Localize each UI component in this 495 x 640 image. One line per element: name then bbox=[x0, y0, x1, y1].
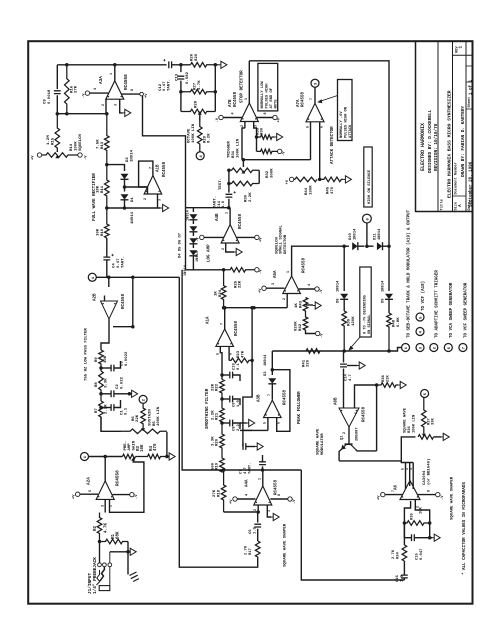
svg-text:4.7: 4.7 bbox=[349, 373, 353, 381]
svg-text:22K: 22K bbox=[386, 374, 390, 382]
offpage arrow cap stage bbox=[255, 446, 257, 448]
svg-text:Sheet: Sheet bbox=[467, 97, 472, 108]
svg-text:1N914: 1N914 bbox=[353, 228, 357, 240]
resistor R33 330 bbox=[257, 135, 275, 140]
wire A4A output up bbox=[262, 470, 264, 486]
svg-text:C11: C11 bbox=[218, 200, 222, 208]
wire CA3094 output pin down bbox=[404, 501, 410, 523]
resistor R30 2.2K to -V bbox=[257, 149, 278, 154]
capacitor C11 1.0 TANT bbox=[228, 184, 230, 193]
svg-text:8: 8 bbox=[264, 112, 268, 114]
svg-text:-V: -V bbox=[216, 117, 220, 122]
svg-text:A7B: A7B bbox=[229, 99, 233, 107]
svg-text:8: 8 bbox=[131, 89, 135, 91]
svg-text:2: 2 bbox=[241, 125, 245, 127]
svg-text:DETECTOR: DETECTOR bbox=[284, 234, 288, 254]
svg-text:R30: R30 bbox=[245, 194, 249, 202]
wire trigger rail bbox=[242, 159, 311, 161]
svg-text:100K LIN: 100K LIN bbox=[412, 414, 416, 433]
capacitor C13 0.082 bbox=[178, 76, 185, 79]
A7B power left circle bbox=[219, 115, 223, 119]
svg-text:RC4558: RC4558 bbox=[234, 91, 238, 107]
wire full wave bottom rail bbox=[107, 207, 161, 209]
svg-text:-V: -V bbox=[283, 151, 287, 156]
A4A power left bbox=[233, 497, 237, 501]
A2A power pin left bbox=[76, 492, 80, 496]
svg-text:7: 7 bbox=[268, 394, 272, 396]
svg-text:2: 2 bbox=[144, 198, 148, 200]
svg-text:SQUARE WAVE SHAPER: SQUARE WAVE SHAPER bbox=[450, 476, 454, 520]
svg-text:1.0: 1.0 bbox=[237, 399, 241, 407]
svg-text:1.0: 1.0 bbox=[222, 200, 226, 208]
svg-text:RC4558: RC4558 bbox=[275, 479, 279, 495]
svg-text:RC4558: RC4558 bbox=[239, 213, 243, 229]
svg-text:R9: R9 bbox=[95, 357, 99, 362]
node R44/R45 bbox=[318, 178, 322, 182]
svg-text:C2: C2 bbox=[116, 384, 120, 389]
svg-text:4.7K: 4.7K bbox=[198, 80, 202, 90]
svg-text:-V: -V bbox=[85, 155, 89, 160]
svg-text:C9: C9 bbox=[233, 402, 237, 407]
svg-text:NOTE: NOTE bbox=[274, 99, 278, 109]
wire R23 to right rail bbox=[250, 359, 254, 363]
svg-text:1N914: 1N914 bbox=[378, 228, 382, 240]
svg-text:R15: R15 bbox=[51, 137, 55, 145]
svg-text:0.0018: 0.0018 bbox=[48, 89, 52, 104]
svg-text:6: 6 bbox=[278, 422, 282, 424]
resistor R48 6.8K bbox=[387, 313, 392, 351]
wire inverting rail bbox=[57, 113, 106, 115]
svg-text:2N5087: 2N5087 bbox=[356, 427, 360, 441]
connector circle 3 out bbox=[416, 344, 424, 352]
svg-text:-V: -V bbox=[441, 495, 445, 500]
title block sheet cell divider b bbox=[466, 81, 473, 83]
svg-text:4.7: 4.7 bbox=[244, 466, 248, 474]
svg-text:2.7K: 2.7K bbox=[392, 549, 396, 559]
svg-text:-V: -V bbox=[82, 93, 86, 98]
op-amp A1B RC4558 bbox=[144, 176, 162, 195]
diode D1 1N914 bbox=[124, 187, 126, 192]
op-amp A6 CA3094 shaper bbox=[400, 481, 420, 500]
resistor R38 22K bbox=[379, 383, 399, 388]
title block size box divider bbox=[453, 195, 467, 197]
wire right branch down bbox=[214, 65, 216, 112]
svg-text:TO ADAPTIVE SCHMITT TRIGGER: TO ADAPTIVE SCHMITT TRIGGER bbox=[436, 270, 440, 338]
resistor R27 4.7K bbox=[181, 89, 215, 94]
svg-text:10K: 10K bbox=[96, 228, 100, 236]
resistor R9 10K filter bbox=[99, 350, 104, 371]
node A3A inverting bbox=[105, 112, 109, 116]
svg-text:MODULATOR: MODULATOR bbox=[321, 433, 325, 455]
offpage arrow R38 bbox=[398, 384, 400, 386]
svg-text:R42: R42 bbox=[299, 323, 303, 331]
svg-text:NORMALLY LOW: NORMALLY LOW bbox=[261, 80, 265, 108]
svg-text:1N914: 1N914 bbox=[264, 354, 268, 366]
offpage arrow A4B bbox=[234, 251, 236, 253]
node R11 top bbox=[105, 163, 109, 167]
resistor R7 2.2K bbox=[99, 401, 104, 431]
offpage arrow square wave bbox=[441, 436, 443, 438]
svg-text:ATTACK: ATTACK bbox=[349, 124, 353, 138]
stop detector bus wire bbox=[249, 61, 389, 247]
svg-text:1: 1 bbox=[226, 212, 230, 214]
capacitor C6 1.0 bbox=[256, 510, 260, 514]
svg-text:6.8K: 6.8K bbox=[397, 317, 401, 327]
svg-text:4: 4 bbox=[94, 88, 98, 90]
svg-text:RC4558: RC4558 bbox=[303, 257, 307, 273]
svg-text:10K: 10K bbox=[141, 444, 145, 452]
svg-text:+V: +V bbox=[259, 288, 263, 293]
svg-text:2.2K: 2.2K bbox=[249, 192, 253, 202]
svg-text:R6: R6 bbox=[132, 416, 136, 421]
node C2 arrow bbox=[128, 392, 132, 396]
svg-text:FULL WAVE RECTIFIER: FULL WAVE RECTIFIER bbox=[93, 173, 97, 221]
svg-text:GAIN: GAIN bbox=[133, 440, 137, 450]
offpage arrow R33 bbox=[275, 136, 277, 138]
svg-text:1K: 1K bbox=[295, 303, 299, 308]
svg-text:D4 D5 D6 D7: D4 D5 D6 D7 bbox=[179, 232, 183, 258]
annotation arrow descending bbox=[350, 337, 361, 349]
op-amp A7A RC4558 attack detector bbox=[306, 103, 324, 122]
connector circle 2 bbox=[139, 395, 147, 403]
envelope bus wire bbox=[272, 350, 389, 352]
feedback tap arrow into R3/R4 bbox=[131, 458, 135, 461]
resistor R21 2.2K bbox=[220, 399, 225, 428]
offpage arrow C14 bbox=[347, 365, 357, 367]
resistor R35 10K bbox=[404, 521, 429, 526]
svg-text:0.047: 0.047 bbox=[420, 548, 424, 560]
svg-text:SQUELCH: SQUELCH bbox=[275, 237, 279, 254]
svg-text:3: 3 bbox=[159, 199, 163, 201]
svg-text:STOP DETECTOR: STOP DETECTOR bbox=[241, 70, 245, 103]
svg-text:6: 6 bbox=[355, 412, 359, 414]
svg-text:R7: R7 bbox=[95, 408, 99, 413]
svg-text:5: 5 bbox=[217, 353, 221, 355]
svg-text:7: 7 bbox=[392, 490, 396, 492]
wire A7A output to circle 3 bbox=[314, 87, 316, 103]
svg-text:68K: 68K bbox=[116, 531, 120, 539]
svg-text:D1: D1 bbox=[131, 197, 135, 202]
svg-text:C10: C10 bbox=[233, 362, 237, 370]
pot R28 100K OCTAVE bbox=[181, 109, 215, 114]
resistor R4 470 bbox=[136, 454, 167, 459]
wire A3A node down to log amp bbox=[143, 96, 186, 208]
capacitor C4 0.47 TANT bbox=[103, 257, 110, 260]
svg-text:(or BB1040): (or BB1040) bbox=[426, 459, 431, 485]
connector circle 5 out bbox=[416, 313, 424, 321]
svg-text:-V: -V bbox=[260, 269, 264, 274]
svg-text:1: 1 bbox=[258, 478, 262, 480]
resistor R26 820 series in bus bbox=[190, 63, 218, 68]
svg-text:27K: 27K bbox=[213, 489, 217, 497]
feedback bus top wire bbox=[57, 64, 166, 66]
svg-text:LOG AMP: LOG AMP bbox=[208, 244, 212, 262]
svg-text:2.2K: 2.2K bbox=[104, 404, 108, 414]
resistor R6 22K bbox=[141, 404, 146, 429]
svg-text:1: 1 bbox=[287, 271, 291, 273]
svg-text:1N914: 1N914 bbox=[381, 280, 385, 292]
node R35 left bbox=[403, 521, 407, 525]
svg-text:A6: A6 bbox=[394, 484, 398, 490]
svg-text:D3: D3 bbox=[264, 371, 268, 376]
svg-text:TEST.: TEST. bbox=[219, 178, 223, 190]
wire A7B output up to bus bbox=[248, 61, 250, 103]
capacitor C10 0.1 bbox=[220, 373, 224, 377]
resistor R17 2.7K bbox=[255, 541, 260, 557]
A3A power left bbox=[85, 91, 89, 95]
svg-text:755 HZ LOW PASS FILTER: 755 HZ LOW PASS FILTER bbox=[85, 328, 89, 381]
connector circle 1 output bbox=[402, 344, 410, 352]
svg-text:330: 330 bbox=[261, 127, 265, 135]
svg-text:820K: 820K bbox=[295, 321, 299, 331]
svg-text:CA3094: CA3094 bbox=[423, 470, 427, 485]
svg-text:300K: 300K bbox=[270, 168, 274, 178]
wire A6B pin to R38 bbox=[355, 385, 379, 408]
svg-text:A3B: A3B bbox=[258, 394, 262, 402]
wire node1 preamp rail bbox=[89, 456, 123, 458]
capacitor C1 0.1 bbox=[99, 406, 103, 410]
svg-text:RC4558: RC4558 bbox=[283, 389, 287, 405]
svg-text:-V: -V bbox=[321, 333, 325, 338]
svg-text:R20: R20 bbox=[216, 438, 220, 446]
log amp bottom wire bbox=[186, 269, 224, 271]
resistor R2 4.7K bbox=[97, 513, 102, 542]
capacitor C15 0.047 bbox=[404, 537, 411, 539]
wire pot loop bbox=[258, 170, 260, 183]
op-amp A2A RC4558 bbox=[96, 481, 114, 500]
A3B pin5 wire bbox=[267, 418, 269, 431]
diode D9 1N914 on right rail bbox=[388, 247, 390, 291]
connector circle 1 fullwave input bbox=[88, 273, 96, 281]
resistor R18 27K bbox=[221, 470, 226, 512]
svg-text:6: 6 bbox=[230, 353, 234, 355]
wire Q1 collector to rail bbox=[356, 449, 377, 451]
resistor R39 120K bbox=[342, 311, 347, 351]
wire to D2 bbox=[107, 165, 125, 171]
resistor R42 820K bbox=[303, 314, 308, 330]
resistor R11 18K bbox=[105, 165, 110, 208]
A4A power right bbox=[288, 497, 292, 501]
svg-text:HIGH ON SILENCE: HIGH ON SILENCE bbox=[368, 169, 372, 204]
svg-text:R36: R36 bbox=[408, 425, 412, 433]
svg-text:PEAK FOLLOWER: PEAK FOLLOWER bbox=[298, 391, 302, 424]
squelch input rail bbox=[224, 307, 288, 309]
svg-text:R17: R17 bbox=[249, 547, 253, 555]
svg-text:PULSES HIGH ON: PULSES HIGH ON bbox=[344, 107, 348, 138]
resistor R20 3.3K bbox=[220, 428, 225, 454]
diode D10 1N914 bbox=[344, 245, 349, 247]
svg-text:22K: 22K bbox=[211, 383, 215, 391]
svg-text:7.5K: 7.5K bbox=[97, 139, 101, 149]
svg-text:2: 2 bbox=[283, 298, 287, 300]
op-amp A1A RC4558 bbox=[216, 329, 234, 347]
resistor R37 33K bbox=[422, 398, 427, 434]
svg-text:560: 560 bbox=[211, 462, 215, 470]
svg-text:R39: R39 bbox=[348, 318, 352, 326]
svg-text:0.1: 0.1 bbox=[125, 407, 129, 415]
wire Q1 emitter down to modulator rail bbox=[339, 449, 342, 461]
resistor R41 220 series bbox=[306, 349, 320, 354]
svg-text:R45: R45 bbox=[327, 186, 331, 194]
svg-text:1.0: 1.0 bbox=[400, 574, 404, 582]
svg-text:4.7K: 4.7K bbox=[105, 522, 109, 533]
svg-text:+V: +V bbox=[286, 179, 290, 184]
op-amp A7B RC4558 stop detector bbox=[240, 103, 258, 122]
svg-text:A5A: A5A bbox=[274, 270, 278, 278]
resistor R22 22K bbox=[220, 379, 225, 399]
svg-text:5: 5 bbox=[401, 468, 405, 470]
capacitor C9 1.0 bbox=[220, 397, 224, 401]
wire A1A pin5 to ladder bbox=[220, 346, 222, 379]
wire A7A pin5 down to trigger rail bbox=[310, 122, 312, 160]
resistor R32 300K bbox=[229, 181, 259, 186]
wire A3A output to bus bbox=[114, 65, 116, 81]
log amp left bypass wire bbox=[185, 208, 187, 270]
svg-text:TANT.: TANT. bbox=[122, 256, 126, 268]
svg-text:3: 3 bbox=[115, 104, 119, 106]
svg-text:R8: R8 bbox=[95, 382, 99, 387]
title block sheet cell divider a bbox=[466, 65, 473, 67]
svg-text:A4A: A4A bbox=[246, 479, 250, 487]
svg-text:2: 2 bbox=[417, 506, 421, 508]
svg-text:DRAWN BY: FABIAN D. KARTERY: DRAWN BY: FABIAN D. KARTERY bbox=[461, 105, 466, 177]
node R2/R1 junction bbox=[98, 540, 102, 544]
svg-text:+V: +V bbox=[260, 237, 264, 242]
A4B pin stubs and arrow bbox=[226, 243, 234, 252]
svg-text:2: 2 bbox=[343, 432, 347, 434]
capacitor C16 1.0 bbox=[401, 575, 408, 578]
svg-text:A6B: A6B bbox=[335, 397, 339, 405]
op-amp A3A RC4558 bbox=[106, 81, 124, 100]
svg-text:1N914: 1N914 bbox=[187, 209, 191, 221]
svg-text:2.2K: 2.2K bbox=[211, 410, 215, 420]
svg-text:R34: R34 bbox=[397, 551, 401, 559]
offpage arrow from R1 bbox=[128, 551, 130, 553]
svg-text:TO VCA SWEEP GENERATOR: TO VCA SWEEP GENERATOR bbox=[450, 282, 454, 338]
svg-text:R37: R37 bbox=[427, 417, 431, 425]
svg-text:3: 3 bbox=[272, 283, 276, 285]
jack J1 symbol bbox=[98, 563, 102, 567]
svg-text:A7A: A7A bbox=[297, 99, 301, 107]
wire R38 node down to Q1 collector bbox=[376, 385, 378, 451]
diode D11 1N914 bbox=[367, 245, 374, 247]
svg-text:RC4558: RC4558 bbox=[302, 91, 306, 107]
svg-text:NORMALLY -6V: NORMALLY -6V bbox=[340, 111, 344, 138]
Q1 emitter with arrow bbox=[342, 444, 347, 449]
svg-text:1 of 1: 1 of 1 bbox=[469, 79, 474, 95]
transistor Q1 2N5087 bbox=[345, 443, 353, 445]
svg-text:REVISION: 10/10/78: REVISION: 10/10/78 bbox=[434, 123, 439, 171]
svg-text:SMOOTHING FILTER: SMOOTHING FILTER bbox=[206, 388, 210, 429]
pot R31 100K LIN TRIGGER bbox=[229, 168, 259, 173]
wire A7B pin2 down bbox=[244, 122, 246, 129]
svg-text:0.082: 0.082 bbox=[186, 71, 190, 84]
svg-text:-V: -V bbox=[293, 499, 297, 504]
connector circle 4 octave cv bbox=[196, 152, 204, 160]
svg-text:TRIGGER: TRIGGER bbox=[228, 141, 232, 158]
svg-text:R5: R5 bbox=[153, 421, 157, 426]
offpage arrow R45 bbox=[343, 178, 345, 180]
svg-text:R22: R22 bbox=[216, 383, 220, 391]
node full wave in bbox=[105, 206, 109, 210]
svg-text:ON SIGNAL: ON SIGNAL bbox=[368, 315, 372, 334]
svg-text:TO VCF SWEEP GENERATOR: TO VCF SWEEP GENERATOR bbox=[465, 282, 469, 338]
svg-text:6: 6 bbox=[321, 126, 325, 128]
svg-text:A2A: A2A bbox=[87, 477, 92, 485]
A3A power right bbox=[140, 92, 144, 96]
svg-text:220: 220 bbox=[307, 359, 311, 367]
svg-text:September 20, 1996: September 20, 1996 bbox=[469, 161, 474, 207]
svg-text:SQUARE WAVE SHAPER: SQUARE WAVE SHAPER bbox=[284, 523, 288, 567]
svg-text:R43: R43 bbox=[300, 300, 304, 308]
connector circle 5 square bbox=[421, 390, 429, 398]
svg-text:1K: 1K bbox=[215, 291, 219, 296]
connector circle 2 out bbox=[430, 344, 438, 352]
resistor R10 10K bbox=[105, 208, 110, 238]
A4B power left bbox=[200, 235, 204, 239]
node D2/D1 junction bbox=[123, 185, 127, 189]
wire A2B output to filter bbox=[101, 319, 109, 350]
wire A3A pins to node rail bbox=[105, 99, 107, 114]
svg-text:27K: 27K bbox=[75, 85, 79, 93]
resistor R44 130K bbox=[289, 177, 293, 181]
svg-text:+V: +V bbox=[73, 494, 77, 499]
svg-text:RC4558: RC4558 bbox=[363, 406, 367, 422]
CA3094 top pin bundle bbox=[401, 461, 413, 463]
wire trigger node down bbox=[242, 128, 245, 160]
svg-text:47K: 47K bbox=[241, 350, 245, 358]
diode chain D4-D7 1N914 bbox=[192, 208, 194, 212]
svg-text:0.1: 0.1 bbox=[237, 362, 241, 370]
wire bus to circle 1 output bbox=[389, 348, 402, 352]
resistor R34 2.7K bbox=[402, 545, 407, 561]
svg-text:R32: R32 bbox=[266, 170, 270, 178]
svg-text:R13: R13 bbox=[101, 141, 105, 149]
connector circle 1 input node bbox=[81, 453, 89, 461]
svg-text:R48: R48 bbox=[393, 319, 397, 327]
svg-text:1N914: 1N914 bbox=[337, 280, 341, 292]
wire bus corner down to C8 bbox=[56, 65, 58, 89]
svg-text:RC4558: RC4558 bbox=[115, 470, 120, 486]
svg-text:C16: C16 bbox=[396, 574, 400, 582]
svg-text:RC4558: RC4558 bbox=[124, 74, 129, 90]
title block sheet/date divider bbox=[466, 108, 473, 110]
svg-text:+V: +V bbox=[145, 93, 149, 98]
resistor R16 27K bbox=[65, 65, 70, 114]
capacitor C8 0.0018 bbox=[54, 91, 61, 94]
op-amp A3B RC4558 peak follower bbox=[264, 400, 282, 418]
svg-text:120K: 120K bbox=[352, 316, 356, 326]
svg-text:10K: 10K bbox=[104, 355, 108, 363]
svg-text:3: 3 bbox=[268, 510, 272, 512]
box NORMALLY LOW PULSES HIGH AT END OF NOTE bbox=[258, 63, 278, 111]
offpage arrow preamp out bbox=[167, 456, 169, 458]
wire A1B pin3 bbox=[157, 194, 159, 208]
svg-text:100K LIN: 100K LIN bbox=[237, 138, 241, 158]
svg-text:SQUARE WAVE: SQUARE WAVE bbox=[404, 407, 408, 433]
svg-text:470: 470 bbox=[154, 443, 158, 451]
svg-text:R28: R28 bbox=[195, 100, 199, 108]
CA3094 power left bbox=[381, 492, 385, 496]
offpage arrow rectifier out bbox=[160, 207, 162, 209]
svg-text:8: 8 bbox=[428, 490, 432, 492]
wire pot to arrow bbox=[434, 436, 441, 438]
svg-text:R23: R23 bbox=[237, 350, 241, 358]
ground at input bbox=[130, 572, 139, 582]
svg-text:4: 4 bbox=[409, 468, 413, 470]
svg-text:Document Number: Document Number bbox=[453, 162, 458, 194]
svg-text:C12: C12 bbox=[159, 83, 163, 91]
